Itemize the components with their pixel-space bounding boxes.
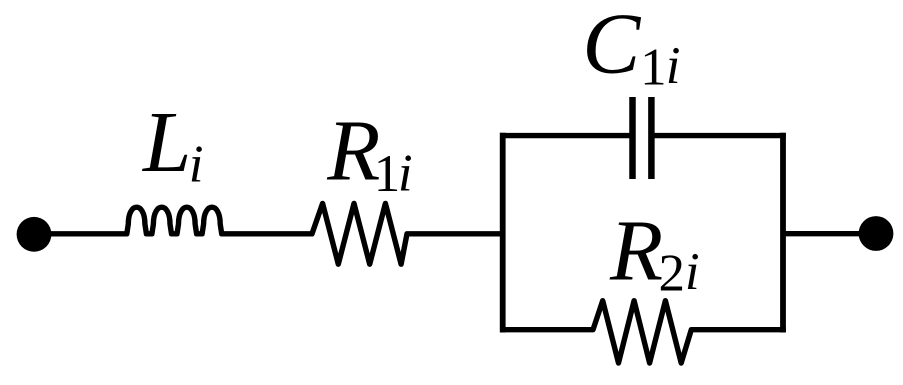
svg-text:2: 2 <box>659 244 686 302</box>
svg-text:i: i <box>666 37 681 95</box>
svg-text:i: i <box>685 243 700 301</box>
svg-text:1: 1 <box>640 39 667 97</box>
svg-text:R: R <box>326 102 380 199</box>
svg-text:1: 1 <box>374 145 401 203</box>
svg-text:R: R <box>609 202 663 299</box>
svg-text:i: i <box>398 144 413 202</box>
svg-text:L: L <box>141 93 191 190</box>
svg-text:C: C <box>582 0 641 92</box>
svg-text:i: i <box>189 135 204 193</box>
